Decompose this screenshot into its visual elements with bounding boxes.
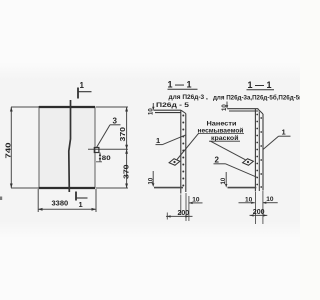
left section: top flange: [154, 110, 182, 112]
right bottom flange dim 10 (rotated): [221, 172, 227, 188]
leader 3 to lifting loop: [97, 117, 121, 148]
section title 1-1 (left section): [168, 80, 198, 90]
label 2 leader to right section: [214, 156, 257, 178]
svg-text:200: 200: [178, 210, 190, 217]
paint leader to right diamond: [211, 141, 246, 160]
svg-text:10: 10: [192, 196, 200, 203]
svg-text:10: 10: [266, 196, 274, 203]
svg-text:200: 200: [253, 209, 265, 216]
right section title 1-1: [247, 80, 275, 90]
left section bottom extension lines: [167, 193, 189, 221]
svg-text:370: 370: [120, 127, 127, 142]
dimension 3380 (bottom): [38, 189, 96, 212]
panel face fill: [39, 107, 95, 188]
left paint mark diamond: [169, 158, 181, 166]
panel outline (plan view): [39, 106, 95, 189]
svg-text:1: 1: [80, 81, 85, 90]
right web dim 10 right: [263, 196, 278, 204]
svg-text:370: 370: [124, 164, 131, 179]
right section: bottom flange edge line: [228, 187, 257, 189]
svg-text:740: 740: [4, 143, 13, 159]
left section: bottom flange edge line: [154, 187, 183, 189]
left web rivet dots: [182, 115, 184, 187]
right flange width dim 200: [250, 209, 268, 217]
dimension 740 (left): [11, 107, 39, 188]
right section bottom extension lines: [256, 191, 263, 224]
panel mid joint line with break kink: [69, 100, 71, 192]
left flange width dim 200: [166, 210, 193, 218]
left section: web (vertical plate): [181, 110, 186, 193]
right web rivet dots column 1: [256, 114, 258, 186]
left web thickness dim 10: [189, 196, 203, 204]
right section: double web plates: [255, 109, 263, 192]
left section label 1 leader: [156, 135, 187, 145]
svg-text:80: 80: [102, 155, 111, 162]
right web rivet dots column 2: [260, 117, 262, 188]
dimension 370 upper + 370 lower (right of plan): [88, 107, 128, 188]
section mark 1 top: [78, 81, 92, 99]
svg-text:П26д - 5: П26д - 5: [156, 102, 189, 109]
paint leader to left diamond: [177, 133, 199, 159]
svg-text:3380: 3380: [52, 199, 69, 208]
section mark 1 bottom: [76, 192, 88, 210]
svg-text:2: 2: [215, 156, 220, 165]
lifting loop detail on panel edge: [94, 148, 99, 153]
note: apply with indelible paint: [198, 121, 245, 143]
svg-text:для П26д-3 ,: для П26д-3 ,: [169, 94, 208, 101]
svg-text:для П26д-3а,П26д-5б,П26д-5в: для П26д-3а,П26д-5б,П26д-5в: [213, 95, 300, 102]
svg-text:1 — 1: 1 — 1: [248, 80, 272, 90]
svg-text:1 — 1: 1 — 1: [168, 80, 192, 90]
stray scan mark at left edge: [0, 197, 2, 201]
dimension 80 (loop offset): [96, 153, 111, 163]
svg-text:10: 10: [245, 197, 253, 204]
left bottom flange dim 10 (rotated): [148, 171, 154, 187]
right section: top flange: [227, 109, 258, 111]
svg-text:1: 1: [156, 136, 160, 145]
left section: top flange dim 10: [148, 103, 154, 115]
right web dim 10 left: [239, 197, 255, 204]
svg-text:1: 1: [282, 128, 286, 137]
right section label 1 leader: [263, 128, 291, 150]
svg-text:1: 1: [79, 200, 83, 209]
right paint mark diamond: [242, 158, 254, 166]
right section: top flange dim 10: [222, 102, 228, 112]
